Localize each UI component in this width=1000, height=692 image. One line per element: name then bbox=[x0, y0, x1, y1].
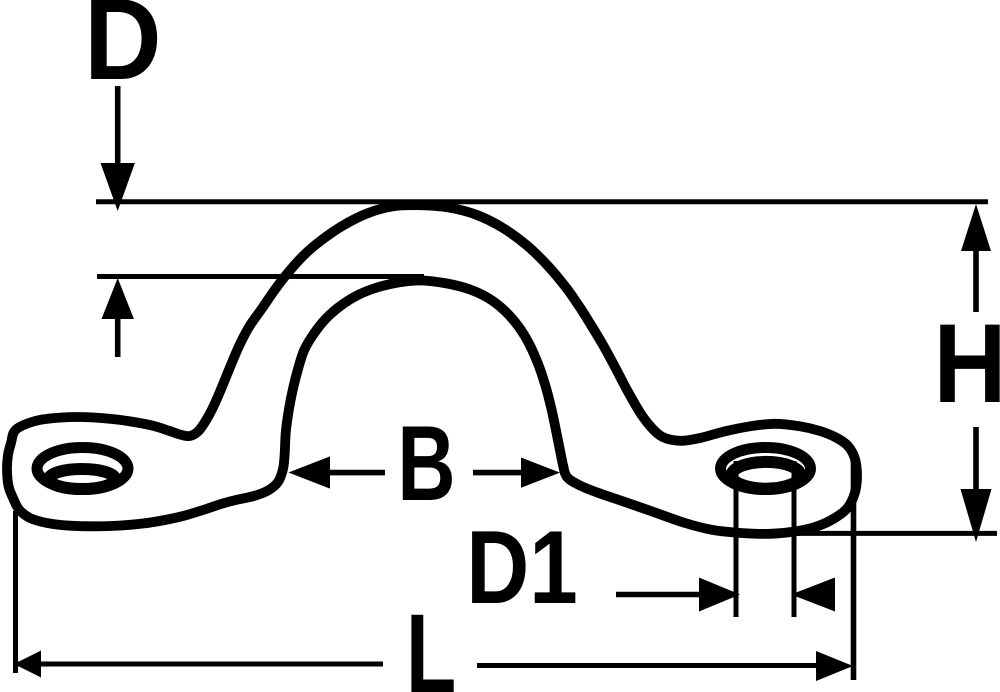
right hole inner ellipse bbox=[732, 462, 801, 489]
dimension line L right segment bbox=[477, 663, 816, 668]
dimension line B shaft right bbox=[473, 470, 524, 476]
dimension extension line: base line right (H lower reference) bbox=[745, 531, 997, 536]
arrowhead H up bbox=[961, 204, 991, 251]
eye strap silhouette outline bbox=[7, 205, 857, 534]
svg-text:H: H bbox=[934, 300, 1000, 426]
arrowhead H down bbox=[961, 489, 992, 542]
dimension line D arrow shaft (down) bbox=[115, 86, 121, 168]
dimension extension line: D1 right vertical bbox=[792, 461, 797, 617]
dimension line L left segment bbox=[14, 662, 383, 667]
dimension extension line: top tangent of inner arch (D lower) bbox=[97, 274, 424, 279]
svg-text:D1: D1 bbox=[466, 510, 578, 626]
dimension line H arrow shaft (up) bbox=[973, 248, 979, 312]
arrowhead D up bbox=[102, 278, 134, 319]
arrowhead L left bbox=[14, 651, 41, 678]
dimension line D1 shaft left bbox=[616, 592, 702, 598]
label D bbox=[84, 0, 162, 104]
label D1 bbox=[466, 510, 578, 626]
left hole inner ellipse bbox=[49, 469, 115, 489]
right hole countersink outer ellipse bbox=[721, 448, 811, 490]
dimension line H arrow shaft (down) bbox=[973, 427, 979, 492]
dimension extension line: left vertical for L bbox=[13, 511, 18, 673]
arrowhead D down bbox=[101, 163, 135, 211]
arrowhead D1 left (pointing right) bbox=[699, 578, 740, 612]
dimension extension line: top tangent of outer arch (D upper) bbox=[96, 199, 988, 204]
arrowhead B left bbox=[289, 456, 331, 488]
dimension extension line: D1 left vertical bbox=[734, 461, 739, 617]
label H bbox=[934, 300, 1000, 426]
svg-text:L: L bbox=[406, 591, 456, 692]
dimension line D arrow shaft (up) bbox=[115, 317, 121, 357]
dimension extension line: right vertical for L bbox=[851, 460, 857, 680]
left hole countersink outer ellipse bbox=[37, 448, 128, 490]
svg-text:D: D bbox=[84, 0, 162, 104]
label B bbox=[397, 404, 455, 524]
label L bbox=[406, 591, 456, 692]
svg-text:B: B bbox=[397, 404, 455, 524]
arrowhead L right bbox=[816, 651, 853, 681]
arrowhead B right bbox=[521, 458, 560, 488]
dimension line B shaft left bbox=[329, 470, 385, 476]
arrowhead D1 right (pointing left) bbox=[791, 578, 835, 612]
